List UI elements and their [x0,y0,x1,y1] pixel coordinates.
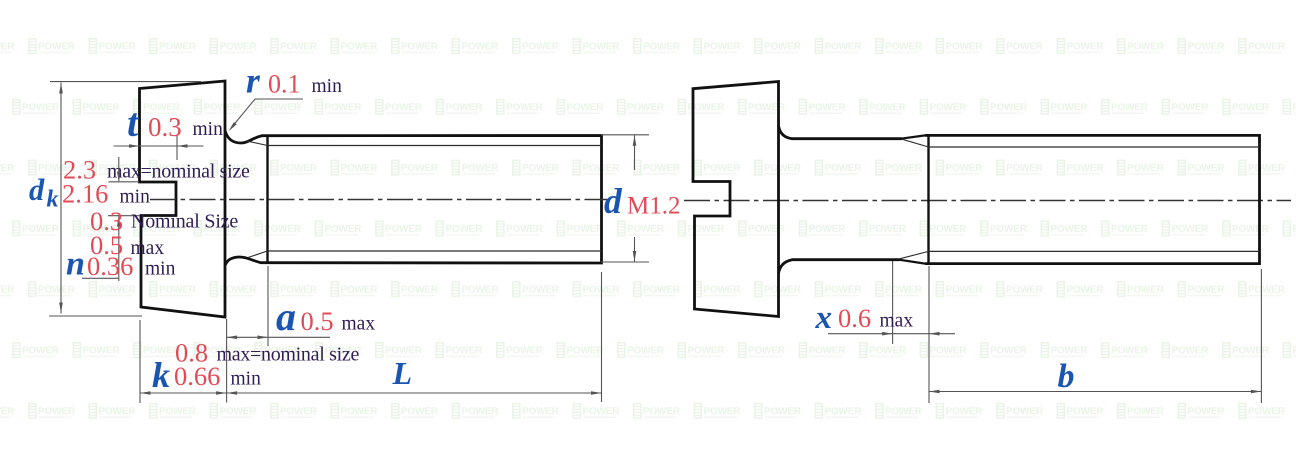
svg-text:0.1: 0.1 [268,70,301,99]
svg-text:L: L [392,355,413,391]
label underline leader for n [82,277,119,279]
svg-text:max=nominal size: max=nominal size [217,344,360,366]
svg-text:max: max [342,314,376,335]
svg-text:t: t [127,100,140,145]
dimension k and L: extension lines [139,320,141,403]
dimension n: extension lines from slot [109,181,140,183]
dimension x: dimension line with outside arrows [828,333,955,335]
dimension n: dimension line with outside arrows [118,157,120,181]
svg-text:k: k [152,355,170,395]
right view: thread outline [925,135,1260,263]
dimension d: dimension line with arrows [634,135,636,170]
dimension d: extension lines [601,134,649,136]
svg-text:M1.2: M1.2 [627,192,680,219]
dimension b: extension line right [1260,269,1262,403]
dimension t: extension line [176,135,178,160]
svg-text:x: x [815,300,833,336]
left view: shaft outline with fillets under head [225,131,602,266]
svg-text:0.66: 0.66 [174,361,220,391]
right view: thread minor diameter lines [929,146,1260,148]
leader r (fillet radius) [232,99,304,128]
svg-text:2.16: 2.16 [62,179,108,209]
dimension d_k: extension lines [50,81,201,83]
svg-text:Nominal Size: Nominal Size [131,211,238,233]
dimension b: dimension line with arrows [929,391,1261,393]
svg-text:0.6: 0.6 [838,303,871,333]
dimension x: extension lines [892,261,894,344]
centerline (dash-dot axis) [150,199,607,201]
left view: thread minor diameter lines [268,145,602,147]
dimension a: extension line right [267,266,269,346]
dimension k/L: shared dimension line [140,392,602,394]
svg-text:min: min [312,76,343,97]
svg-text:max: max [880,311,914,332]
dimension t: dimension line with outside arrows [114,145,204,147]
right view: screw head outline with slot [693,82,779,317]
svg-text:min: min [231,369,262,390]
dimension d_k: dimension line with arrows [60,83,62,314]
svg-text:a: a [276,294,296,339]
svg-text:k: k [47,187,59,213]
svg-text:max=nominal size: max=nominal size [107,161,250,183]
svg-text:min: min [193,119,224,140]
left view: thread boundary line [266,136,268,264]
svg-text:min: min [120,187,151,208]
svg-text:min: min [145,259,176,280]
svg-text:r: r [246,61,261,101]
svg-text:d: d [29,173,45,207]
left view: screw head outline with slot [140,81,226,317]
svg-text:b: b [1058,358,1075,395]
svg-text:0.3: 0.3 [148,112,182,142]
right view: shank bottom line with head fillet [779,260,901,274]
svg-text:n: n [66,246,85,283]
svg-text:0.5: 0.5 [301,306,334,336]
svg-text:max: max [131,238,165,259]
right view: thread runout diagonals [902,139,929,147]
svg-text:0.36: 0.36 [87,251,133,281]
left view: thread runout diagonals [246,141,268,146]
dimension a: dimension line with arrows [227,336,330,338]
svg-text:d: d [604,181,623,221]
right view: shank top line with head fillet [779,126,903,139]
right view: thread taper transitions [901,135,925,138]
right view: thread boundary line [927,135,929,263]
